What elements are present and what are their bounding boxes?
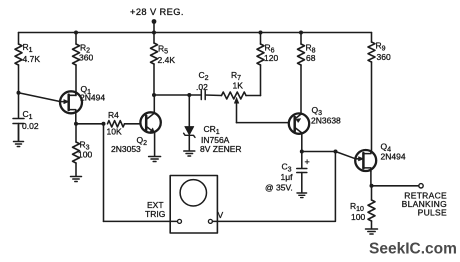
- wire R10 bottom lead: [371, 221, 373, 229]
- terminal output: [419, 184, 423, 188]
- terminal ext trig left: [178, 219, 182, 223]
- wire Q4 emitter diagonal: [336, 152, 356, 159]
- ground below Q2: [149, 157, 161, 162]
- wire Q2 emitter down: [154, 133, 156, 156]
- svg-text:+28 V REG.: +28 V REG.: [130, 7, 184, 17]
- box EXT TRIG generator: [170, 176, 217, 234]
- wire R3 leads: [75, 124, 77, 176]
- wire Q3 emitter up: [300, 113, 302, 116]
- wire output lead: [372, 185, 419, 187]
- svg-text:TRIG: TRIG: [145, 209, 165, 219]
- svg-text:R5: R5: [158, 44, 168, 56]
- svg-text:R9: R9: [376, 41, 386, 53]
- resistor R7 (pot): [222, 92, 247, 99]
- svg-text:+: +: [305, 157, 310, 167]
- svg-text:R1: R1: [23, 42, 33, 54]
- svg-text:0.02: 0.02: [22, 121, 39, 131]
- resistor R4: [108, 121, 125, 127]
- wire wiper to Q3 base: [237, 122, 289, 124]
- wire R5 leads: [153, 33, 155, 96]
- R7 wiper arrow: [234, 98, 239, 123]
- resistor R9: [368, 42, 375, 62]
- svg-text:1μf: 1μf: [281, 172, 294, 182]
- svg-text:2N3053: 2N3053: [111, 144, 141, 154]
- ground below C1: [14, 142, 24, 147]
- svg-text:2N494: 2N494: [80, 93, 105, 103]
- capacitor C1: [13, 119, 24, 124]
- svg-text:8V ZENER: 8V ZENER: [200, 144, 242, 154]
- wire ext trig left lead: [104, 220, 178, 222]
- resistor R2: [73, 44, 80, 65]
- wire Q2 collector up: [153, 95, 155, 113]
- wire R9 leads: [371, 33, 373, 151]
- svg-text:@ 35V.: @ 35V.: [265, 183, 293, 193]
- zener diode CR1: [184, 95, 195, 151]
- terminal ext trig right: [208, 219, 212, 223]
- ground below R10: [366, 229, 378, 234]
- svg-text:10K: 10K: [107, 127, 122, 137]
- transistor Q2 (2N3053 NPN): [140, 112, 160, 133]
- capacitor C2: [201, 91, 205, 100]
- ground below C3: [297, 193, 307, 198]
- svg-text:1K: 1K: [233, 81, 244, 91]
- svg-text:C2: C2: [199, 70, 209, 82]
- transistor Q3 (2N3638 PNP): [289, 113, 309, 133]
- ground below R3: [71, 177, 82, 182]
- svg-text:.02: .02: [196, 82, 208, 92]
- wire left branch vertical: [18, 33, 20, 142]
- wire Q1 base1 down to node: [76, 113, 104, 124]
- wire top +28V rail: [19, 32, 372, 34]
- transistor Q4 (UJT 2N494): [355, 150, 376, 172]
- svg-text:4.7K: 4.7K: [23, 54, 41, 64]
- node +28V tap: [153, 22, 155, 33]
- transistor Q1 (UJT 2N494): [19, 91, 83, 113]
- wire Q4 base1 down to output node: [370, 172, 373, 201]
- resistor R1: [15, 44, 22, 65]
- wire R4 right lead to Q2 base: [125, 123, 141, 125]
- svg-text:100: 100: [351, 212, 365, 222]
- svg-text:68: 68: [306, 53, 316, 63]
- svg-text:V: V: [218, 210, 224, 220]
- wire C1 bottom lead: [18, 124, 20, 142]
- wire R8 leads: [300, 33, 302, 114]
- svg-text:360: 360: [377, 52, 391, 62]
- wire Q3 collector down: [301, 133, 303, 152]
- svg-text:R4: R4: [108, 110, 119, 120]
- svg-text:360: 360: [79, 53, 93, 63]
- wire mid node: [154, 94, 222, 97]
- wire R2 to Q1: [75, 65, 77, 96]
- resistor R6: [257, 44, 264, 65]
- resistor R8: [298, 44, 305, 65]
- svg-text:2N494: 2N494: [381, 152, 406, 162]
- svg-text:100: 100: [78, 150, 92, 160]
- wire trigger input drop: [103, 124, 105, 222]
- svg-text:PULSE: PULSE: [418, 208, 447, 218]
- circle inside generator: [180, 180, 206, 206]
- wire R6 leads: [260, 33, 262, 96]
- resistor R3: [73, 142, 80, 163]
- wire collector node: [213, 152, 336, 222]
- wire R7 right lead up to R6: [246, 95, 261, 97]
- wire R2 top lead: [75, 33, 77, 45]
- svg-text:120: 120: [264, 53, 278, 63]
- svg-text:SeekIC.com: SeekIC.com: [369, 241, 457, 258]
- svg-text:2.4K: 2.4K: [158, 55, 176, 65]
- resistor R10: [368, 200, 375, 221]
- capacitor C3: [297, 152, 307, 193]
- ground below CR1: [184, 151, 195, 156]
- resistor R5: [151, 43, 158, 64]
- svg-text:2N3638: 2N3638: [311, 116, 341, 126]
